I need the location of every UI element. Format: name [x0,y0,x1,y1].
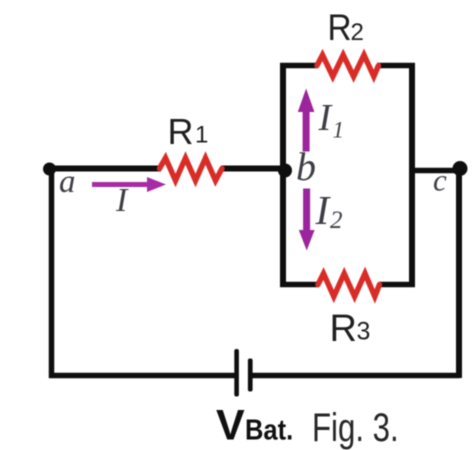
node b [278,164,292,178]
svg-text:2: 2 [330,207,343,234]
wire: bottom bar left segment [280,282,319,288]
wire: parallel box left vertical (through node b) [280,63,286,287]
wire: bottom left (to battery) [49,373,235,379]
wire: a to R1 left lead [49,166,161,172]
resistor R1 [160,158,223,181]
resistor R3 [318,274,380,297]
svg-text:b: b [296,144,316,189]
resistor R2 [317,55,379,77]
svg-text:I: I [115,182,129,219]
wire: R1 right lead to node b [221,166,286,172]
svg-text:R: R [168,111,194,152]
wire: bottom right (battery to right corner) [251,373,460,379]
svg-text:V: V [216,402,245,450]
wire: bottom bar right segment [379,282,415,288]
node a [43,163,56,176]
node c [453,161,468,176]
svg-text:a: a [59,164,76,200]
svg-text:1: 1 [195,122,208,149]
wire: right outer vertical (c down to bottom) [456,169,462,379]
svg-text:I: I [315,187,332,233]
wire: right vertical to node c [412,168,458,174]
svg-text:Bat.: Bat. [245,413,293,446]
svg-text:3: 3 [357,318,371,346]
battery right plate (short) [248,359,253,392]
svg-text:1: 1 [333,118,345,143]
svg-text:R: R [328,7,352,48]
svg-text:Fig. 3.: Fig. 3. [312,405,399,450]
svg-text:I: I [318,97,334,139]
svg-text:2: 2 [351,19,364,46]
battery left plate (long) [234,349,239,397]
wire: top bar left segment [280,63,318,69]
current arrow I2 [299,189,315,251]
wire: parallel box right vertical [409,63,415,287]
wire: left outer vertical (a down to bottom) [49,166,55,378]
current arrow I1 [298,89,315,152]
current arrow I [92,177,166,192]
svg-text:c: c [433,163,447,198]
wire: top bar right segment [377,63,415,69]
svg-text:R: R [330,308,357,350]
